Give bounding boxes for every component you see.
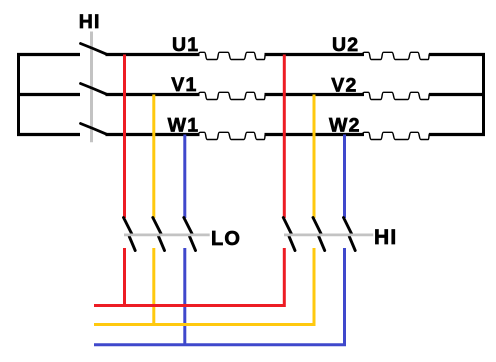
HI contactor pole 1 blade upper	[283, 218, 291, 235]
svg-text:W2: W2	[329, 114, 361, 136]
red wire below LO contact to L1 bus	[123, 248, 126, 306]
wire row V right segment	[429, 93, 485, 96]
wire row U center segment	[265, 53, 365, 56]
svg-text:V2: V2	[331, 74, 357, 96]
wire row W middle segment	[106, 133, 200, 136]
LO contactor pole 3 blade lower	[190, 237, 196, 251]
svg-text:HI: HI	[374, 226, 397, 249]
switch HI linkage bar (top)	[90, 32, 93, 143]
winding V second half coil	[363, 92, 430, 99]
svg-text:V1: V1	[171, 74, 197, 96]
blue wire from W2 tap down to HI contact	[343, 135, 346, 219]
left bus bar	[17, 53, 20, 136]
blue wire from W1 tap down to LO contact	[183, 135, 186, 219]
HI contactor pole 3 blade lower	[349, 237, 355, 251]
svg-text:HI: HI	[79, 11, 101, 33]
wire row V center segment	[265, 93, 365, 96]
wire row U right segment	[429, 53, 485, 56]
switch HI pole W blade	[81, 124, 107, 135]
wire row V left segment	[17, 93, 80, 96]
wire row U left segment	[17, 53, 80, 56]
winding U first half coil	[199, 52, 266, 59]
LO contactor pole 1 blade lower	[129, 237, 135, 251]
red supply bus L1 with riser to HI contact	[94, 248, 284, 306]
LO contactor pole 2 blade upper	[153, 218, 162, 235]
LO contactor pole 3 blade upper	[184, 218, 193, 235]
winding W first half coil	[199, 132, 266, 139]
LO contactor pole 1 blade upper	[124, 218, 133, 235]
winding U second half coil	[363, 52, 430, 59]
right bus bar	[482, 53, 485, 136]
wire row W left segment	[17, 133, 80, 136]
red wire from U2 tap down to HI contact	[283, 55, 286, 219]
yellow wire below LO contact to L2 bus	[152, 248, 155, 325]
LO contactor linkage bar	[124, 233, 210, 236]
LO contactor pole 2 blade lower	[159, 237, 165, 251]
red wire from U1 tap down to LO contact	[123, 55, 126, 219]
HI contactor linkage bar	[284, 233, 373, 236]
svg-text:U1: U1	[172, 34, 199, 56]
HI contactor pole 1 blade lower	[289, 237, 295, 251]
yellow supply bus L2 with riser to HI contact	[94, 248, 314, 325]
HI contactor pole 2 blade lower	[319, 237, 325, 251]
switch HI pole U blade	[81, 44, 107, 55]
winding W second half coil	[363, 132, 430, 139]
switch HI pole V blade	[81, 84, 107, 95]
blue wire below LO contact to L3 bus	[183, 248, 186, 345]
HI contactor pole 3 blade upper	[344, 218, 352, 235]
wire row W right segment	[429, 133, 485, 136]
svg-text:W1: W1	[168, 114, 200, 136]
svg-text:LO: LO	[211, 228, 241, 250]
HI contactor pole 2 blade upper	[313, 218, 321, 235]
wire row U middle segment	[106, 53, 200, 56]
wire row V middle segment	[106, 93, 200, 96]
winding V first half coil	[199, 92, 266, 99]
svg-text:U2: U2	[332, 34, 359, 56]
blue supply bus L3 with riser to HI contact	[94, 248, 345, 345]
yellow wire from V2 tap down to HI contact	[313, 95, 316, 219]
wire row W center segment	[265, 133, 365, 136]
yellow wire from V1 tap down to LO contact	[152, 95, 155, 219]
